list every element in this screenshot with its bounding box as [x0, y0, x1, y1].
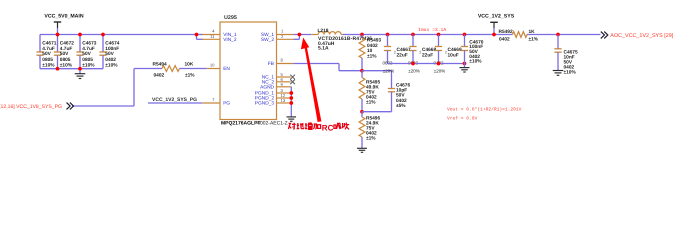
wire FB node to C4676 — [362, 71, 392, 89]
junction input bus at C4673 — [78, 33, 82, 37]
power symbol VCC_1V2_SYS — [478, 13, 515, 34]
capacitor C4676 — [388, 82, 411, 111]
svg-text:0805: 0805 — [60, 57, 71, 63]
svg-text:11: 11 — [210, 34, 215, 39]
wire SW pins join — [293, 35, 311, 40]
svg-text:VCC_5V0_MAIN: VCC_5V0_MAIN — [44, 14, 83, 20]
pin names U295 — [223, 32, 274, 107]
capacitor C4673 — [76, 35, 96, 69]
svg-text:±1%: ±1% — [366, 100, 376, 106]
svg-text:50V: 50V — [105, 51, 114, 57]
junction input gnd at C4672 — [56, 67, 60, 71]
ground output caps — [460, 64, 470, 73]
svg-text:0805: 0805 — [42, 57, 53, 63]
capacitor C4674 — [99, 35, 119, 69]
svg-text:±10%: ±10% — [42, 63, 55, 69]
svg-text:C4674: C4674 — [105, 41, 119, 47]
svg-text:±1%: ±1% — [366, 136, 376, 142]
wire output caps ground bus — [388, 63, 465, 65]
svg-text:R5493: R5493 — [367, 38, 381, 44]
svg-text:C4669: C4669 — [448, 47, 462, 53]
wire divider mid to C4676 — [362, 111, 392, 113]
ground input caps — [75, 69, 86, 79]
svg-text:10uF: 10uF — [448, 52, 459, 58]
junction input gnd at C4673 — [78, 67, 82, 71]
svg-text:5.1A: 5.1A — [318, 46, 329, 52]
svg-text:0603: 0603 — [382, 60, 393, 65]
junction VIN node — [195, 33, 199, 37]
note Vref — [447, 116, 478, 122]
svg-text:VIN_2: VIN_2 — [223, 37, 237, 43]
resistor R5496 — [359, 112, 380, 149]
svg-text:[12,16] VCC_1V8_SYS_PG: [12,16] VCC_1V8_SYS_PG — [0, 104, 62, 110]
junction rail at C4669 — [437, 33, 441, 37]
junction input bus at C4672 — [56, 33, 60, 37]
junction rail at C4670 — [463, 33, 467, 37]
annotation arrow RC snubber — [301, 38, 322, 123]
svg-text:Vref = 0.6V: Vref = 0.6V — [447, 116, 478, 122]
svg-text:±10%: ±10% — [469, 59, 482, 65]
svg-text:4.7uF: 4.7uF — [60, 46, 73, 52]
svg-text:22uF: 22uF — [397, 52, 408, 58]
svg-text:50V: 50V — [396, 92, 405, 98]
junction input bus at C4674 — [101, 33, 105, 37]
capacitor C4668 — [408, 35, 436, 74]
svg-text:R5494: R5494 — [153, 61, 167, 67]
svg-text:C4668: C4668 — [422, 47, 436, 53]
svg-text:PG: PG — [223, 101, 230, 107]
svg-text:U295: U295 — [224, 15, 237, 21]
svg-text:±1%: ±1% — [529, 37, 539, 43]
junction rail at C4675 — [556, 33, 560, 37]
svg-text:AGND: AGND — [260, 85, 274, 91]
svg-text:-4002-AEC1-Z: -4002-AEC1-Z — [256, 120, 288, 126]
svg-text:10: 10 — [210, 63, 215, 68]
note Vout formula — [447, 106, 522, 112]
junction rail at C4668 — [411, 33, 415, 37]
svg-text:10K: 10K — [185, 61, 194, 67]
resistor R5495 — [359, 71, 380, 112]
svg-text:±10%: ±10% — [105, 63, 118, 69]
wire FB net — [293, 64, 362, 71]
svg-text:±1%: ±1% — [185, 72, 195, 78]
svg-text:100nF: 100nF — [105, 46, 119, 52]
svg-text:±1%: ±1% — [367, 54, 377, 60]
svg-text:R5492: R5492 — [499, 29, 513, 35]
annotation text add RC snubber to ground — [288, 122, 349, 132]
wire output rail VCC_1V2_SYS — [343, 34, 601, 36]
svg-text:13: 13 — [281, 98, 286, 103]
svg-text:10: 10 — [367, 48, 373, 54]
svg-text:±20%: ±20% — [408, 69, 419, 74]
svg-text:0805: 0805 — [82, 57, 93, 63]
capacitor C4667 — [382, 35, 410, 74]
junction divider mid node — [360, 110, 364, 114]
wire input bus VCC_5V0_MAIN — [40, 34, 197, 36]
note Imax — [418, 27, 446, 33]
svg-text:VCC_1V2_SYS_PG: VCC_1V2_SYS_PG — [152, 97, 197, 103]
svg-text:Imax =3.1A: Imax =3.1A — [418, 27, 446, 33]
resistor R5493 — [359, 35, 381, 71]
wire AGND PGND collector — [290, 87, 293, 117]
svg-text:L218: L218 — [318, 28, 329, 34]
inductor L218 — [311, 28, 372, 52]
svg-text:C4667: C4667 — [397, 47, 411, 53]
ground U295 PGND — [287, 117, 297, 121]
no-connect X pin 5 — [290, 75, 295, 80]
svg-text:2: 2 — [419, 51, 421, 55]
svg-text:±20%: ±20% — [383, 69, 394, 74]
power symbol VCC_5V0_MAIN — [44, 14, 83, 35]
junction PGND_2 — [289, 96, 293, 100]
pin numbers U295 — [210, 29, 286, 103]
junction FB node — [360, 69, 364, 73]
svg-text:SW_2: SW_2 — [261, 37, 274, 43]
net label VCC_1V2_SYS_PG wire — [148, 97, 202, 103]
port VCC_1V8_SYS_PG input — [0, 103, 134, 110]
svg-text:C4673: C4673 — [82, 41, 96, 47]
capacitor C4669 — [433, 35, 461, 74]
svg-text:±10%: ±10% — [564, 69, 577, 75]
junction rail at C4667 — [386, 33, 390, 37]
port AOC_VCC_1V2_SYS output — [601, 32, 674, 40]
svg-text:50V: 50V — [82, 51, 91, 57]
svg-text:RC: RC — [322, 123, 334, 132]
svg-text:VCC_1V2_SYS: VCC_1V2_SYS — [478, 13, 515, 19]
junction PGND_3 — [289, 101, 293, 105]
svg-text:0402: 0402 — [105, 57, 116, 63]
junction gnd bus C4670 — [463, 62, 467, 66]
junction PGND_1 — [289, 91, 293, 95]
svg-text:±5%: ±5% — [396, 103, 406, 109]
svg-text:C4671: C4671 — [42, 41, 56, 47]
svg-text:2: 2 — [394, 51, 396, 55]
svg-text:±20%: ±20% — [434, 69, 445, 74]
resistor R5492 — [499, 29, 539, 43]
ground C4675 — [553, 71, 564, 76]
junction divider top — [360, 33, 364, 37]
ground R5496 — [357, 148, 367, 152]
svg-text:PGND_3: PGND_3 — [255, 101, 275, 107]
IC U295 buck regulator body — [220, 15, 277, 119]
part number MPQ2176AGLPT-4002-AEC1-Z — [221, 120, 288, 126]
svg-text:0402: 0402 — [154, 72, 165, 78]
svg-text:50V: 50V — [60, 51, 69, 57]
svg-text:AOC_VCC_1V2_SYS [29]: AOC_VCC_1V2_SYS [29] — [610, 33, 673, 39]
svg-text:Vout = 0.6*(1+R2/R1)=1.201V: Vout = 0.6*(1+R2/R1)=1.201V — [447, 106, 522, 112]
svg-text:0402: 0402 — [499, 37, 510, 43]
no-connect X pin 6 — [290, 80, 295, 85]
junction rail VCC_1V2_SYS tap — [492, 33, 496, 37]
capacitor C4671 — [36, 35, 56, 69]
svg-text:C4672: C4672 — [60, 41, 74, 47]
svg-text:±10%: ±10% — [82, 63, 95, 69]
svg-text:0402: 0402 — [367, 43, 378, 49]
wire EN vertical — [133, 69, 135, 107]
svg-text:±10%: ±10% — [60, 63, 73, 69]
svg-text:2: 2 — [445, 51, 447, 55]
svg-text:22uF: 22uF — [422, 52, 433, 58]
capacitor C4670 — [461, 35, 484, 65]
junction gnd bus C4668 — [411, 62, 415, 66]
svg-text:EN: EN — [223, 66, 230, 72]
svg-text:4.7uF: 4.7uF — [42, 46, 55, 52]
svg-text:4.7uF: 4.7uF — [82, 46, 95, 52]
pin stubs U295 — [202, 35, 293, 104]
junction SW node — [298, 33, 302, 37]
wire input ground bus — [40, 68, 103, 70]
svg-text:FB: FB — [268, 61, 274, 67]
svg-text:1K: 1K — [529, 29, 536, 35]
capacitor C4675 — [554, 35, 578, 76]
junction gnd bus C4669 — [437, 62, 441, 66]
svg-text:50V: 50V — [42, 51, 51, 57]
resistor R5494 — [134, 61, 207, 78]
capacitor C4672 — [54, 35, 74, 69]
wire VIN pins join — [197, 35, 203, 40]
